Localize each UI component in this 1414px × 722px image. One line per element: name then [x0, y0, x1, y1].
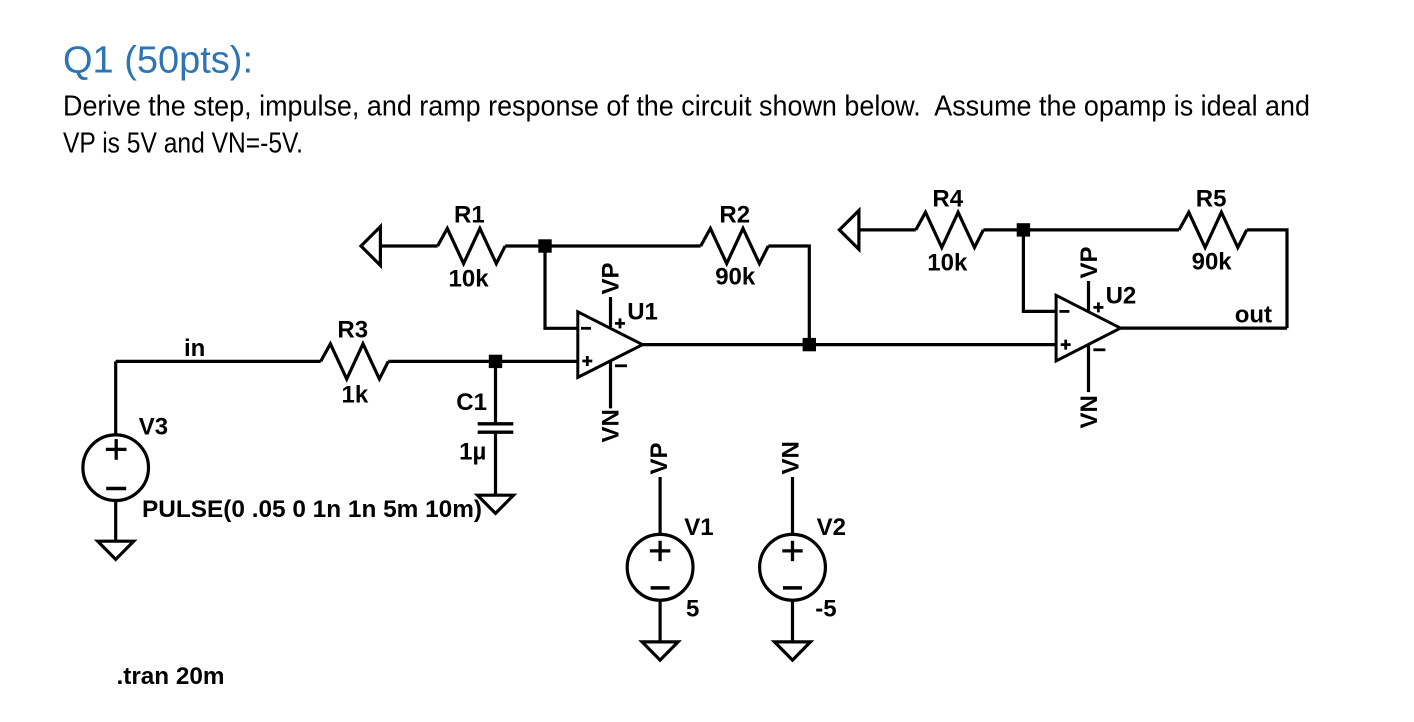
ground V3	[98, 541, 134, 559]
svg-text:.tran 20m: .tran 20m	[117, 663, 225, 690]
resistor R3	[321, 344, 389, 379]
svg-text:U2: U2	[1106, 283, 1137, 310]
svg-text:in: in	[184, 335, 205, 362]
V1 minus mark	[651, 586, 670, 590]
svg-text:Q1 (50pts):: Q1 (50pts):	[63, 40, 253, 82]
wire ground to R4	[859, 228, 916, 231]
wire U1 output to U2 plus input	[643, 343, 1057, 346]
U2 non-inverting plus mark	[1061, 340, 1071, 350]
svg-text:out: out	[1235, 302, 1272, 329]
U2 VN minus mark	[1093, 348, 1105, 351]
wire U2 output	[1121, 327, 1288, 330]
svg-text:R1: R1	[454, 202, 485, 229]
U1 VN minus mark	[615, 364, 627, 367]
junction node R4-R5	[1017, 223, 1030, 236]
svg-text:10k: 10k	[449, 266, 490, 293]
svg-text:5: 5	[686, 596, 699, 623]
svg-text:VP: VP	[1076, 246, 1103, 278]
resistor R4	[916, 212, 984, 247]
svg-text:1k: 1k	[342, 382, 369, 409]
wire ground to R1	[380, 244, 437, 247]
junction node R1-R2	[538, 239, 551, 252]
wire C1 bottom	[494, 432, 497, 495]
svg-text:V3: V3	[139, 413, 168, 440]
U1 inverting minus mark	[581, 327, 591, 330]
svg-text:V1: V1	[684, 514, 713, 541]
wire R4 to R5 through node	[983, 228, 1179, 231]
svg-text:U1: U1	[627, 299, 658, 326]
svg-text:-5: -5	[815, 596, 836, 623]
svg-text:VN: VN	[1076, 395, 1103, 428]
ground V2	[775, 642, 811, 660]
resistor R2	[701, 228, 769, 263]
U1 non-inverting plus mark	[582, 356, 592, 366]
ground C1	[478, 495, 514, 513]
wire R2 right corner down to output node	[768, 246, 809, 345]
wire R3 to U1 non-inverting input	[388, 360, 578, 363]
voltage source V3 circle	[83, 435, 149, 501]
svg-text:PULSE(0 .05 0 1n 1n 5m 10m): PULSE(0 .05 0 1n 1n 5m 10m)	[142, 496, 482, 523]
svg-text:R4: R4	[932, 186, 963, 213]
U2 inverting minus mark	[1059, 310, 1069, 313]
svg-text:V2: V2	[817, 514, 846, 541]
op-amp U2 triangle	[1056, 295, 1120, 361]
V3 plus mark	[106, 439, 127, 460]
op-amp U1 triangle	[578, 312, 643, 378]
capacitor C1 plates	[478, 424, 514, 432]
U1 VN pin	[609, 362, 612, 409]
svg-text:R5: R5	[1196, 186, 1227, 213]
V2 plus mark	[782, 541, 802, 561]
svg-text:90k: 90k	[1192, 249, 1233, 276]
U2 VP pin	[1087, 281, 1090, 311]
wire R1 to R2 through node	[505, 244, 701, 247]
U2 VP plus mark	[1093, 302, 1103, 312]
resistor R5	[1179, 212, 1247, 247]
wire V3 bottom	[114, 500, 117, 541]
wire V2 top	[791, 477, 794, 534]
svg-text:Derive the step, impulse, and: Derive the step, impulse, and ramp respo…	[63, 91, 1310, 123]
junction node C1 top	[489, 355, 502, 368]
ground flag (rotated) at R4 left	[839, 211, 859, 250]
wire in net	[116, 360, 321, 363]
svg-text:90k: 90k	[715, 264, 756, 291]
voltage source V1 circle	[627, 534, 693, 600]
ground flag (rotated) at R1 left	[361, 227, 380, 266]
wire V1 bottom	[658, 600, 661, 642]
wire node down to U1 inverting input	[545, 246, 578, 328]
svg-text:VP: VP	[598, 262, 625, 294]
svg-text:C1: C1	[456, 389, 487, 416]
wire V2 bottom	[791, 600, 794, 642]
wire V3 top	[114, 361, 117, 435]
wire V1 top	[658, 477, 661, 534]
svg-text:10k: 10k	[927, 250, 968, 277]
voltage source V2 circle	[760, 534, 826, 600]
V2 minus mark	[783, 586, 802, 590]
resistor R1	[438, 228, 506, 263]
V1 plus mark	[650, 541, 670, 561]
wire node down to U2 inverting input	[1023, 230, 1056, 312]
svg-text:R2: R2	[719, 202, 750, 229]
U2 VN pin	[1087, 345, 1090, 392]
wire R5 right corner down to out	[1247, 230, 1287, 328]
svg-text:VP is 5V and VN=-5V.: VP is 5V and VN=-5V.	[63, 128, 303, 160]
svg-text:VP: VP	[646, 442, 673, 474]
svg-text:VN: VN	[777, 441, 804, 474]
svg-text:VN: VN	[598, 409, 625, 442]
svg-text:1µ: 1µ	[459, 439, 486, 466]
ground V1	[642, 642, 678, 660]
wire C1 top	[494, 361, 497, 423]
svg-text:R3: R3	[337, 317, 368, 344]
U1 VP pin	[609, 297, 612, 327]
V3 minus mark	[106, 487, 126, 491]
U1 VP plus mark	[615, 318, 625, 328]
junction node U1 output	[803, 338, 816, 351]
